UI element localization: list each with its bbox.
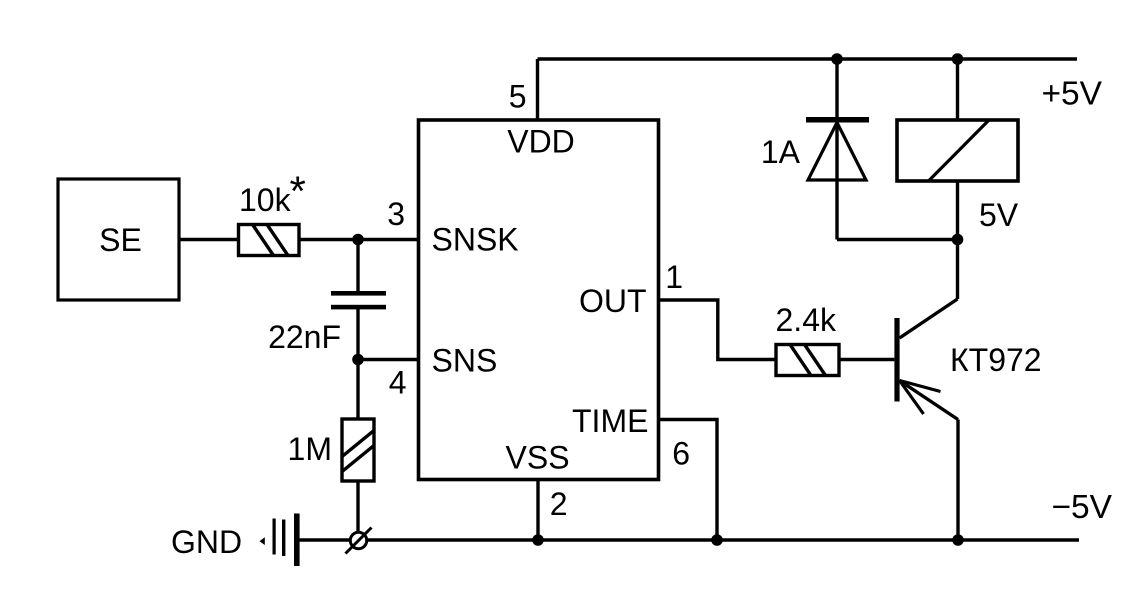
resistor R2 1M: [288, 419, 377, 481]
base bar: [894, 318, 899, 402]
svg-text:OUT: OUT: [579, 283, 647, 319]
svg-text:VSS: VSS: [506, 440, 570, 476]
junction dot relay top rail: [952, 53, 964, 65]
wire node B to R2: [356, 360, 359, 420]
pin 2 wire: [536, 480, 539, 541]
diode VD1: [761, 117, 869, 180]
svg-text:−5V: −5V: [1051, 489, 1112, 526]
junction dot TIME rail: [711, 534, 723, 546]
wire relay top: [956, 59, 959, 120]
wire diode bottom to relay branch: [837, 238, 958, 241]
emitter arrow barb upper: [900, 381, 941, 392]
resistor R3 2.4k: [776, 302, 840, 380]
junction dot diode top rail: [831, 53, 843, 65]
wire relay bottom to collector: [956, 181, 959, 299]
relay K1: [897, 120, 1019, 233]
svg-text:3: 3: [387, 196, 405, 232]
svg-text:2.4k: 2.4k: [776, 302, 837, 338]
node junction B: [352, 354, 364, 366]
wire diode branch vertical: [835, 59, 838, 240]
junction dot VSS rail: [532, 534, 544, 546]
junction dot diode-relay: [952, 234, 964, 246]
svg-text:2: 2: [550, 486, 568, 522]
ground junction circle with slash: [346, 528, 372, 554]
resistor R1 10k: [239, 168, 306, 260]
svg-text:6: 6: [672, 436, 690, 472]
svg-text:VDD: VDD: [507, 124, 575, 160]
capacitor C1 22nF: [268, 291, 386, 355]
IC U1 box: [419, 120, 659, 480]
wire SE to R1: [179, 238, 239, 241]
bottom rail -5V wire: [299, 538, 1079, 542]
emitter diagonal: [900, 381, 959, 420]
svg-text:1A: 1A: [761, 134, 801, 170]
svg-text:SNS: SNS: [432, 343, 498, 379]
svg-text:5: 5: [509, 79, 527, 115]
base wire R3 to transistor: [839, 358, 894, 361]
emitter arrow barb lower: [900, 381, 924, 415]
pin 6 TIME wire: [659, 420, 718, 541]
svg-text:TIME: TIME: [572, 403, 648, 439]
svg-text:22nF: 22nF: [268, 319, 341, 355]
GND chassis symbol: [171, 514, 300, 567]
node junction A: [352, 234, 364, 246]
wire node A to C1: [356, 240, 359, 292]
wire R1 to pin 3: [299, 238, 419, 241]
svg-text:КТ972: КТ972: [950, 342, 1042, 378]
sensor SE box: [58, 179, 179, 300]
svg-text:GND: GND: [171, 524, 242, 560]
junction dot emitter rail: [952, 534, 964, 546]
svg-text:4: 4: [389, 365, 407, 401]
svg-text:SNSK: SNSK: [432, 222, 519, 258]
wire emitter to rail: [956, 420, 959, 541]
wire R2 to ground node: [356, 481, 359, 534]
svg-text:1M: 1M: [288, 431, 332, 467]
wire C1 to node B: [356, 309, 359, 360]
collector diagonal: [900, 299, 958, 338]
svg-text:+5V: +5V: [1041, 76, 1102, 113]
wire node B to pin 4: [358, 358, 419, 361]
svg-text:SE: SE: [99, 222, 142, 258]
pin 1 OUT wire: [659, 300, 777, 360]
svg-text:10k: 10k: [239, 182, 292, 218]
svg-text:5V: 5V: [979, 197, 1019, 233]
+5V top rail wire: [538, 57, 1078, 60]
transistor VT1 KT972: [894, 299, 1041, 420]
svg-text:1: 1: [665, 259, 683, 295]
svg-text:*: *: [290, 168, 306, 215]
pin 5 wire: [536, 59, 539, 120]
